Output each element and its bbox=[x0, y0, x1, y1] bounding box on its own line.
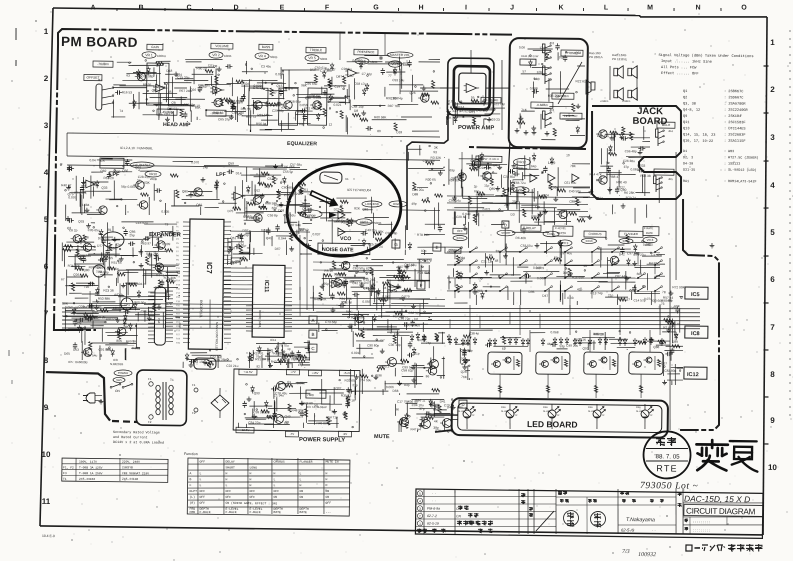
capacitor bbox=[87, 305, 89, 307]
ground bbox=[218, 67, 220, 69]
svg-text:D57: D57 bbox=[92, 310, 98, 314]
speaker SP1 bbox=[591, 82, 595, 90]
capacitor bbox=[338, 305, 341, 307]
svg-text:4K: 4K bbox=[434, 419, 439, 423]
node bbox=[415, 86, 417, 88]
bus vertical drops bbox=[89, 291, 91, 308]
svg-text:L: L bbox=[199, 471, 201, 475]
resistor bbox=[626, 235, 629, 243]
resistor bbox=[327, 417, 330, 425]
svg-text:R22 72: R22 72 bbox=[246, 115, 257, 119]
svg-text:5: 5 bbox=[419, 492, 421, 496]
wire bbox=[334, 221, 357, 224]
svg-text:37p: 37p bbox=[624, 165, 630, 169]
capacitor bbox=[382, 68, 384, 70]
svg-text:R24 69: R24 69 bbox=[448, 178, 459, 182]
ground bbox=[355, 374, 357, 377]
driver transistor b bbox=[553, 357, 559, 363]
svg-text:0.021: 0.021 bbox=[333, 103, 341, 107]
ground bbox=[301, 401, 303, 403]
svg-text:OFF: OFF bbox=[325, 501, 331, 505]
ground bbox=[464, 226, 466, 228]
capacitor bbox=[508, 170, 510, 172]
node bbox=[105, 321, 107, 323]
node bbox=[427, 197, 429, 199]
CIRCUIT DIAGRAM title bbox=[684, 504, 763, 516]
svg-text:JK2: JK2 bbox=[549, 41, 555, 45]
LED driver group 4 bbox=[629, 352, 663, 374]
switch contact bbox=[565, 261, 571, 265]
capacitor bbox=[91, 303, 93, 305]
svg-text:F1, F2: F1, F2 bbox=[63, 466, 74, 469]
node bbox=[498, 276, 500, 278]
svg-text:B: B bbox=[311, 332, 314, 337]
node bbox=[114, 169, 116, 171]
svg-text:L: L bbox=[299, 471, 301, 475]
svg-text:CR: CR bbox=[456, 514, 461, 518]
svg-text:Q85: Q85 bbox=[489, 187, 495, 191]
svg-text:C99 53u: C99 53u bbox=[283, 213, 295, 217]
Q23 transistor bbox=[483, 172, 492, 181]
svg-text:82K: 82K bbox=[354, 206, 361, 210]
svg-text:MAIN CONTROLLER: MAIN CONTROLLER bbox=[215, 322, 219, 352]
head amp feedback box bbox=[146, 63, 169, 105]
JK4 jack bbox=[657, 131, 659, 146]
svg-text:42K: 42K bbox=[99, 159, 106, 163]
-18dBm label bbox=[206, 110, 226, 116]
resistor bbox=[664, 318, 672, 321]
svg-text:Q82: Q82 bbox=[100, 169, 106, 173]
svg-text:HEAD AMP: HEAD AMP bbox=[163, 122, 191, 128]
wire bbox=[265, 128, 295, 131]
svg-text:31p: 31p bbox=[414, 352, 420, 356]
switch contact bbox=[520, 248, 526, 252]
resistor bbox=[324, 274, 332, 277]
mute transistors Q30-32 bbox=[399, 417, 408, 426]
equalizer filter box 2 bbox=[279, 88, 298, 125]
svg-text:C74 59u: C74 59u bbox=[359, 378, 371, 382]
svg-text:VR 2: VR 2 bbox=[212, 53, 220, 57]
resistor bbox=[400, 359, 408, 362]
svg-text:D97: D97 bbox=[242, 228, 248, 232]
svg-text:P16: P16 bbox=[176, 289, 181, 291]
ground bbox=[230, 247, 232, 249]
svg-text:TREBLE: TREBLE bbox=[310, 48, 322, 52]
ground bbox=[634, 261, 636, 263]
resistor bbox=[522, 187, 525, 195]
node bbox=[142, 241, 144, 243]
ground bbox=[291, 246, 293, 249]
svg-text:32p: 32p bbox=[559, 55, 565, 59]
svg-text:: : : : : : : : :: : : : : : : : : : bbox=[693, 528, 710, 532]
svg-text:27: 27 bbox=[137, 179, 141, 183]
LED cathode bar bbox=[594, 416, 600, 418]
svg-text:Input ....... 1kHz Sine: Input ....... 1kHz Sine bbox=[661, 59, 712, 65]
ground bbox=[95, 305, 97, 307]
svg-text:R80 49: R80 49 bbox=[616, 180, 627, 184]
left margin registration dashes bbox=[15, 28, 17, 40]
resistor bbox=[267, 415, 275, 418]
svg-text:D19: D19 bbox=[139, 282, 145, 286]
node bbox=[377, 370, 379, 372]
resistor bbox=[117, 273, 125, 276]
capacitor bbox=[271, 388, 274, 390]
ground bbox=[202, 177, 204, 179]
svg-text:CHORUS: CHORUS bbox=[588, 232, 601, 236]
LED wires bbox=[644, 404, 646, 410]
switch contact bbox=[470, 274, 476, 278]
svg-text:Q15: Q15 bbox=[276, 84, 282, 88]
svg-text:OFF: OFF bbox=[274, 489, 280, 493]
svg-text:D3x: D3x bbox=[588, 405, 593, 409]
svg-text:C22 21u: C22 21u bbox=[226, 364, 238, 368]
svg-text:SL-98: SL-98 bbox=[588, 411, 595, 413]
resistor bbox=[170, 174, 178, 177]
capacitor bbox=[637, 169, 639, 171]
svg-text:46: 46 bbox=[428, 362, 432, 366]
transistor bbox=[137, 72, 146, 81]
ground bbox=[413, 378, 415, 380]
svg-text:B: B bbox=[189, 477, 191, 481]
svg-text:C60 90p: C60 90p bbox=[134, 301, 146, 305]
node bbox=[499, 209, 501, 211]
resistor bbox=[337, 292, 345, 295]
Q42 transistor bbox=[599, 176, 608, 185]
capacitor bbox=[347, 390, 349, 392]
svg-text:P19: P19 bbox=[176, 301, 181, 303]
capacitor bbox=[407, 354, 410, 356]
LED series resistor bbox=[639, 385, 642, 392]
resistor bbox=[80, 274, 88, 277]
wire bbox=[137, 312, 139, 321]
resistor bbox=[346, 398, 349, 406]
mains earth ground bbox=[100, 399, 102, 401]
VR2 VOLUME control bbox=[211, 43, 233, 49]
diode bbox=[99, 231, 103, 234]
svg-text:R0D43164NL: R0D43164NL bbox=[258, 310, 262, 329]
node bbox=[363, 270, 365, 272]
left edge vertical wire bbox=[66, 133, 69, 156]
resistor bbox=[215, 76, 218, 84]
DC OFFSET oval bbox=[130, 162, 154, 168]
ground bbox=[488, 117, 490, 119]
svg-text:OFF: OFF bbox=[225, 495, 231, 499]
node bbox=[460, 101, 462, 103]
diode bbox=[576, 128, 580, 131]
svg-text:-9V: -9V bbox=[343, 432, 348, 436]
svg-text:C43 51u: C43 51u bbox=[365, 228, 377, 232]
node bbox=[263, 88, 265, 90]
wires middle column bbox=[306, 230, 308, 310]
outer frame bottom line bbox=[40, 526, 763, 535]
transistor bbox=[472, 159, 481, 168]
svg-text:R5 24: R5 24 bbox=[374, 245, 383, 249]
svg-text:SW2a: SW2a bbox=[456, 236, 464, 240]
diode bbox=[96, 290, 100, 293]
hand-drawn change-mark ellipse bbox=[282, 157, 407, 263]
hanko stamp 2 bbox=[590, 511, 605, 526]
connector Pa4 bbox=[154, 287, 166, 345]
mains enclosure bbox=[136, 370, 187, 426]
svg-text:80p: 80p bbox=[361, 60, 367, 64]
svg-text:R30 65: R30 65 bbox=[425, 178, 436, 182]
svg-text:D8: D8 bbox=[354, 109, 358, 113]
resistor bbox=[422, 93, 430, 96]
VR8 oval bbox=[643, 237, 657, 243]
svg-text:D: D bbox=[462, 402, 465, 407]
svg-text:MUTE: MUTE bbox=[374, 434, 390, 440]
svg-text:Q16, 17, 19-22: Q16, 17, 19-22 bbox=[683, 140, 713, 144]
name column kanji bbox=[677, 492, 681, 494]
svg-text:P13: P13 bbox=[176, 276, 181, 278]
svg-text:62: 62 bbox=[502, 347, 506, 351]
svg-text:12K: 12K bbox=[537, 70, 544, 74]
svg-text:C16 62u: C16 62u bbox=[136, 221, 148, 225]
SC BOARD label bbox=[481, 97, 501, 103]
resistor bbox=[272, 176, 275, 184]
diode bbox=[627, 260, 631, 263]
svg-text:Q79: Q79 bbox=[114, 170, 120, 174]
capacitor bbox=[484, 166, 486, 168]
svg-text:64: 64 bbox=[410, 264, 414, 268]
svg-text:1: 1 bbox=[44, 27, 49, 36]
capacitor bbox=[280, 89, 282, 92]
ground bbox=[149, 252, 151, 254]
speaker SP2 bbox=[614, 68, 618, 76]
svg-text:37p: 37p bbox=[419, 407, 425, 411]
capacitor bbox=[74, 342, 76, 344]
capacitor bbox=[671, 348, 673, 350]
diode bbox=[124, 316, 128, 319]
diode bbox=[283, 179, 287, 182]
capacitor bbox=[616, 187, 618, 189]
switch row wire bbox=[447, 249, 660, 254]
ground bbox=[539, 212, 541, 215]
capacitor bbox=[232, 104, 234, 107]
IC12a box bbox=[445, 247, 461, 253]
svg-text:2: 2 bbox=[419, 514, 421, 518]
power amp wires bbox=[440, 87, 459, 89]
ground bbox=[255, 105, 257, 107]
svg-text:JK5: JK5 bbox=[668, 177, 673, 181]
svg-text:Q37: Q37 bbox=[335, 386, 341, 390]
svg-text:VR 5: VR 5 bbox=[308, 56, 316, 60]
switch contact bbox=[592, 248, 598, 252]
hand-drawn arrow (pen) bbox=[309, 188, 340, 210]
switch contact bbox=[500, 248, 506, 252]
enclosure1 diagonal wire bbox=[558, 62, 582, 105]
capacitor bbox=[431, 400, 433, 402]
svg-text:55K: 55K bbox=[446, 116, 453, 120]
node bbox=[274, 209, 276, 211]
capacitor bbox=[621, 247, 623, 249]
svg-text:· ·: · · bbox=[652, 527, 656, 532]
IC12 box bbox=[684, 367, 707, 379]
switch contact bbox=[565, 287, 571, 291]
svg-text:R88 58K: R88 58K bbox=[265, 201, 278, 205]
svg-text:LONG: LONG bbox=[250, 465, 258, 469]
svg-text:G: G bbox=[394, 242, 398, 247]
node bbox=[246, 384, 248, 386]
svg-text:ON: ON bbox=[300, 489, 304, 493]
svg-text:9K: 9K bbox=[395, 408, 400, 412]
ground bbox=[453, 196, 455, 198]
svg-text:0.079: 0.079 bbox=[402, 295, 410, 299]
svg-text:C90 80p: C90 80p bbox=[367, 343, 379, 347]
ground bbox=[321, 284, 323, 286]
henkou kanji KOU bbox=[729, 441, 757, 472]
svg-text:P22: P22 bbox=[176, 313, 181, 315]
svg-text:P23: P23 bbox=[176, 318, 181, 320]
svg-text:DLPT: DLPT bbox=[190, 489, 198, 493]
Q40 transistor bbox=[599, 130, 608, 139]
svg-text:P21: P21 bbox=[176, 309, 181, 311]
node bbox=[376, 339, 378, 341]
resistor bbox=[618, 298, 626, 301]
node bbox=[485, 290, 487, 292]
svg-text:NOISE GATE: NOISE GATE bbox=[322, 247, 354, 253]
switch label OFF bbox=[453, 228, 467, 234]
svg-text:0.037: 0.037 bbox=[312, 232, 320, 236]
wire bbox=[117, 273, 119, 284]
ground bbox=[140, 263, 142, 265]
switch drop wire bbox=[544, 278, 546, 286]
capacitor bbox=[439, 225, 441, 227]
svg-text:C99 28u: C99 28u bbox=[79, 254, 91, 258]
board boundary left lower bbox=[54, 250, 97, 331]
long wire rows 2-3 bbox=[67, 132, 440, 137]
svg-text:R91 56: R91 56 bbox=[241, 107, 252, 111]
svg-text:Q80: Q80 bbox=[513, 189, 519, 193]
resistor bbox=[394, 123, 397, 131]
diode bbox=[342, 282, 346, 285]
svg-text:C64 22p: C64 22p bbox=[248, 421, 260, 425]
LED arrows bbox=[555, 407, 559, 410]
svg-text:R74 47K: R74 47K bbox=[74, 191, 87, 195]
TP1 test point bbox=[121, 298, 133, 310]
node bbox=[108, 286, 110, 288]
svg-text:PRESENCE: PRESENCE bbox=[357, 50, 374, 54]
svg-text:5: 5 bbox=[770, 228, 775, 237]
svg-text:Secondary Rated Voltage: Secondary Rated Voltage bbox=[113, 430, 160, 436]
svg-text:IC5 TC74HCU04: IC5 TC74HCU04 bbox=[347, 188, 371, 192]
svg-text:CHORUS: CHORUS bbox=[273, 460, 284, 464]
transformer core bbox=[162, 382, 165, 420]
svg-text:C75 70u: C75 70u bbox=[277, 344, 289, 348]
+11.5V box bbox=[239, 369, 257, 375]
svg-text:245-44108: 245-44108 bbox=[122, 478, 138, 481]
svg-text:D96: D96 bbox=[529, 290, 535, 294]
capacitor bbox=[155, 189, 158, 191]
svg-text:44: 44 bbox=[158, 113, 162, 117]
switch drop wire bbox=[564, 252, 566, 264]
resistor bbox=[278, 359, 286, 362]
resistor bbox=[401, 275, 409, 278]
ground bbox=[577, 104, 579, 106]
resistor bbox=[288, 404, 291, 412]
diode bbox=[137, 292, 141, 295]
svg-text:(L): (L) bbox=[189, 495, 195, 499]
resistor bbox=[265, 184, 273, 187]
svg-text:R40 97: R40 97 bbox=[61, 183, 72, 187]
ground bbox=[626, 276, 628, 279]
Q1 regulator bbox=[276, 381, 285, 390]
svg-text:35: 35 bbox=[168, 90, 172, 94]
capacitor bbox=[128, 243, 130, 245]
wire bbox=[125, 283, 127, 302]
node E box bbox=[433, 243, 441, 251]
svg-text:T-00B 3A 125V: T-00B 3A 125V bbox=[79, 466, 103, 469]
svg-text:R79 74: R79 74 bbox=[626, 196, 637, 200]
resistor bbox=[158, 280, 161, 288]
node bbox=[422, 266, 424, 268]
svg-text:K: K bbox=[558, 4, 563, 11]
ground bbox=[158, 305, 160, 307]
ground bbox=[148, 316, 150, 318]
svg-text:P7: P7 bbox=[176, 251, 179, 253]
plug wires bbox=[95, 394, 102, 396]
capacitor bbox=[115, 91, 118, 93]
svg-text:C48 99p: C48 99p bbox=[363, 286, 375, 290]
resistor bbox=[340, 200, 348, 203]
wire bbox=[389, 83, 423, 86]
svg-text:0.084: 0.084 bbox=[81, 203, 89, 207]
transistor bbox=[559, 210, 568, 219]
svg-text:NJM291B: NJM291B bbox=[110, 362, 123, 366]
ground bbox=[274, 164, 276, 167]
svg-text:R32 27: R32 27 bbox=[229, 246, 240, 250]
drawing number rows bbox=[683, 516, 763, 518]
resistor bbox=[375, 238, 383, 241]
svg-text:0.033: 0.033 bbox=[548, 185, 556, 189]
capacitor bbox=[68, 165, 70, 167]
Q11 transistor bbox=[254, 214, 263, 223]
driver vertical wire bbox=[589, 330, 592, 352]
svg-text:C96 48p: C96 48p bbox=[625, 149, 637, 153]
svg-text:C17 83u: C17 83u bbox=[249, 216, 261, 220]
diode bbox=[147, 69, 151, 72]
capacitor bbox=[83, 256, 85, 258]
ground bbox=[278, 189, 280, 191]
svg-text:C91 64p: C91 64p bbox=[461, 348, 473, 352]
ground bbox=[381, 349, 383, 351]
IC11 pins bbox=[246, 267, 253, 269]
node G box bbox=[392, 240, 400, 248]
resistor bbox=[277, 191, 280, 199]
EFFECT label bbox=[654, 169, 674, 175]
node bbox=[68, 186, 70, 188]
capacitor bbox=[81, 185, 83, 188]
svg-text:R23 38: R23 38 bbox=[103, 289, 114, 293]
hanko stamp Morinaga bbox=[563, 510, 578, 525]
wire bbox=[241, 174, 270, 177]
switch drop wire bbox=[454, 252, 456, 259]
svg-text:34K: 34K bbox=[123, 325, 130, 329]
svg-text:FLANGER: FLANGER bbox=[299, 460, 312, 464]
extra diode row bbox=[461, 340, 465, 343]
JK3 line out jack bbox=[544, 113, 546, 128]
diode bbox=[95, 182, 99, 185]
noise gate box bbox=[318, 243, 370, 255]
resistor bbox=[76, 249, 79, 257]
svg-text:OFFSET: OFFSET bbox=[86, 76, 99, 80]
wire row y303 bbox=[62, 301, 445, 308]
svg-text:P9: P9 bbox=[176, 260, 179, 262]
wires effects to drivers bbox=[469, 305, 472, 335]
svg-text:LOW END: LOW END bbox=[365, 202, 379, 206]
resistor bbox=[422, 199, 430, 202]
svg-text:FRB: FRB bbox=[189, 510, 195, 514]
